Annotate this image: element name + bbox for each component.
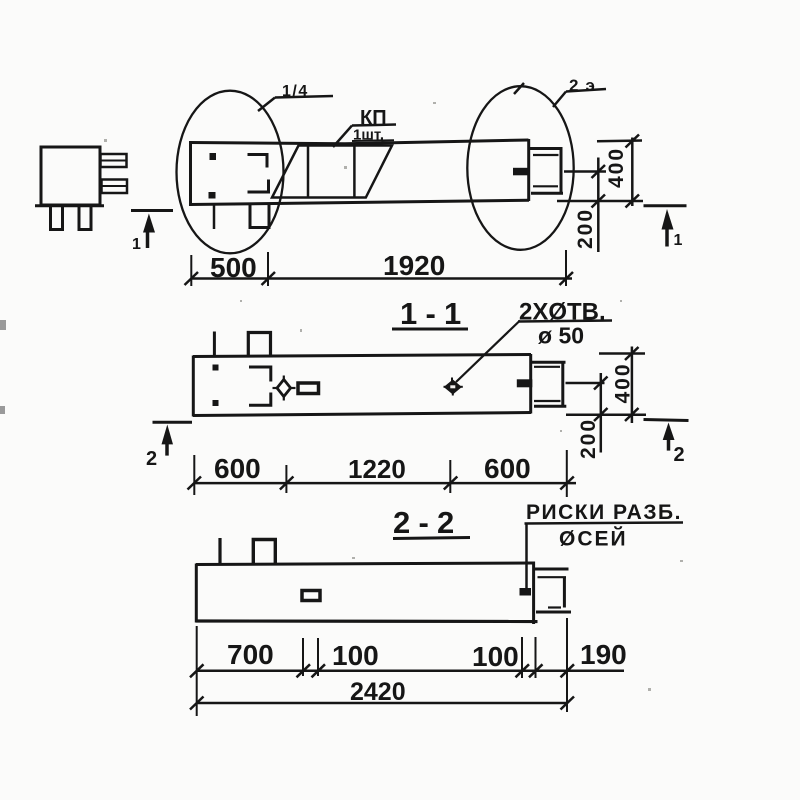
svg-text:1920: 1920 — [383, 250, 445, 281]
axis line right of tenon (1-1) — [566, 382, 605, 385]
detail ellipse left — [177, 91, 284, 254]
tenon at beam end (top view) — [529, 148, 563, 194]
svg-text:1 - 1: 1 - 1 — [400, 296, 462, 331]
end view left leg — [51, 207, 63, 230]
beam outline section 2-2 — [196, 562, 538, 625]
section marker 1 right: cut line — [644, 204, 687, 207]
axis mark bar at beam end (top view) — [513, 168, 529, 176]
svg-text:200: 200 — [574, 208, 597, 249]
riski razb osey label — [525, 501, 684, 588]
beam outline top view: left edge — [189, 141, 192, 206]
callout label 22 — [553, 76, 606, 107]
dim 400 top view — [557, 135, 643, 208]
end view square body — [41, 147, 100, 205]
heading 2-2 — [393, 505, 470, 540]
hanger line on top (1-1) — [213, 332, 216, 357]
beam outline top view: bottom edge — [190, 200, 529, 204]
dim 400 section 1-1 — [566, 347, 646, 424]
svg-text:500: 500 — [210, 252, 257, 283]
heading 1-1 — [392, 296, 468, 331]
edge speck left upper — [0, 320, 6, 330]
KP plate parallelogram — [272, 146, 392, 198]
beam outline top view: right end edge — [527, 139, 530, 201]
svg-text:100: 100 — [472, 641, 519, 672]
tick on right ellipse top — [514, 83, 524, 94]
section marker 2 right: cut line — [644, 420, 689, 421]
anchor dot lower left (top view) — [209, 192, 216, 199]
dim 200 section 1-1 — [594, 373, 608, 453]
beam outline section 1-1 — [193, 354, 531, 417]
section marker 2 right: arrow — [663, 423, 675, 451]
svg-text:400: 400 — [605, 147, 628, 188]
svg-text:ØСЕЙ: ØСЕЙ — [559, 527, 628, 551]
slot (1-1) — [298, 383, 319, 394]
svg-text:РИСКИ РАЗБ.: РИСКИ РАЗБ. — [526, 501, 682, 524]
dim row 700/100/100/190 (2-2) — [190, 618, 624, 716]
svg-text:200: 200 — [577, 418, 600, 459]
console stub on top (1-1) — [248, 333, 270, 357]
end view right leg — [79, 207, 91, 230]
section marker 1 left: cut line — [131, 209, 173, 212]
hidden bracket outline (top view) — [248, 155, 269, 193]
anchor dot lower (1-1) — [213, 400, 219, 406]
dim row 600/1220/600 (1-1) — [188, 450, 577, 497]
section marker 1 left: arrow — [143, 214, 155, 249]
tenon at beam end (1-1) — [531, 362, 566, 406]
axis mark (riska) on beam end (2-2) — [520, 588, 532, 596]
lifting loop diamond (1-1) — [273, 376, 296, 401]
axis line right of tenon (top view) — [564, 170, 606, 173]
hole callout 2xOTV text — [518, 299, 612, 326]
detail ellipse right — [467, 86, 573, 250]
dim row 500/1920 (top view) — [185, 250, 574, 286]
anchor dot upper left (top view) — [210, 153, 217, 160]
console stub on top (2-2) — [253, 540, 275, 565]
hole callout leader — [456, 321, 520, 383]
svg-text:2420: 2420 — [350, 678, 406, 706]
svg-text:400: 400 — [612, 362, 635, 403]
svg-text:600: 600 — [214, 453, 261, 484]
dim 200 top view — [592, 158, 606, 253]
end view base line — [35, 204, 104, 207]
hanger line below beam (top view) — [213, 205, 216, 229]
svg-text:2 - 2: 2 - 2 — [393, 505, 455, 540]
svg-text:1: 1 — [674, 232, 683, 249]
end view bottom tab — [102, 180, 128, 194]
edge speck left lower — [0, 406, 5, 414]
section marker 1 right: arrow — [662, 209, 674, 247]
svg-text:2: 2 — [674, 444, 685, 466]
svg-text:700: 700 — [227, 639, 274, 670]
svg-text:190: 190 — [580, 639, 627, 670]
beam outline top view: top edge — [190, 140, 529, 144]
section marker 2 left: arrow — [162, 425, 174, 456]
scan speckles — [104, 102, 683, 691]
svg-text:1: 1 — [132, 236, 141, 253]
svg-text:100: 100 — [332, 640, 379, 671]
hidden bracket outline (1-1) — [249, 367, 271, 405]
anchor dot upper (1-1) — [213, 365, 219, 371]
hanger line on top (2-2) — [218, 538, 221, 564]
svg-text:ø 50: ø 50 — [538, 323, 584, 349]
axis mark bar at beam end (1-1) — [517, 379, 533, 387]
tenon side view (2-2) — [535, 569, 571, 612]
console stub below beam (top view) — [250, 205, 269, 228]
svg-text:2: 2 — [146, 448, 157, 470]
svg-text:600: 600 — [484, 453, 531, 484]
callout label 1/4 — [258, 83, 333, 111]
callout label KP — [333, 107, 396, 147]
dim row 2420 (2-2) — [190, 697, 574, 710]
end view top tab — [101, 154, 127, 167]
slot (2-2) — [302, 591, 320, 601]
svg-text:1220: 1220 — [348, 454, 406, 484]
section marker 2 left: cut line — [153, 421, 193, 424]
hole marker diamond (1-1) — [445, 381, 460, 393]
